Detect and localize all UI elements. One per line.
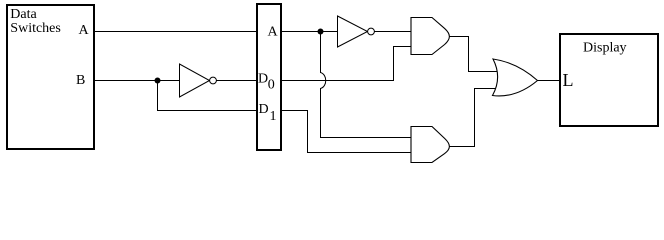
bus box <box>257 4 281 150</box>
wire A: bus to inverter U2 input <box>281 31 338 33</box>
svg-text:D: D <box>258 72 268 87</box>
wire: U2 output to AND U3 top input <box>374 31 411 33</box>
box: Data Switches <box>7 5 94 149</box>
wire: AND U3 output to OR U5 top input <box>450 37 499 72</box>
wire A: Data Switches to bus <box>94 31 256 33</box>
svg-text:A: A <box>268 25 279 40</box>
wire L: OR U5 output to Display <box>538 80 561 82</box>
wire: A branch with hop over D0 to AND U4 top input <box>321 32 412 138</box>
svg-text:0: 0 <box>268 78 275 93</box>
svg-text:Switches: Switches <box>10 21 61 36</box>
wire: AND U4 output to OR U5 bottom input <box>450 89 499 147</box>
inverter U2 bubble <box>368 28 375 35</box>
OR gate U5 <box>493 59 538 96</box>
box: Display <box>560 34 658 126</box>
AND gate U4 <box>411 127 449 163</box>
svg-text:Display: Display <box>583 41 627 56</box>
AND gate U3 <box>411 18 449 55</box>
wire: B branch down to bus D1 <box>158 81 257 111</box>
svg-text:D: D <box>259 102 269 117</box>
svg-text:1: 1 <box>270 109 277 124</box>
wire: U1 output to bus D0 <box>216 80 256 82</box>
junction dot on A <box>318 29 324 35</box>
inverter U1 bubble <box>210 77 217 84</box>
wire: bus D1 to AND U4 lower input <box>281 111 411 153</box>
svg-text:A: A <box>79 23 90 38</box>
wire: bus D0 to AND U3 lower input <box>281 47 411 81</box>
inverter U1 triangle (B line) <box>180 64 210 97</box>
svg-text:B: B <box>76 73 85 88</box>
inverter U2 triangle (A line) <box>338 16 368 47</box>
svg-text:Data: Data <box>10 7 37 22</box>
svg-text:L: L <box>563 70 574 90</box>
junction dot on B <box>155 78 161 84</box>
wire B: Data Switches to inverter U1 input <box>94 80 180 82</box>
